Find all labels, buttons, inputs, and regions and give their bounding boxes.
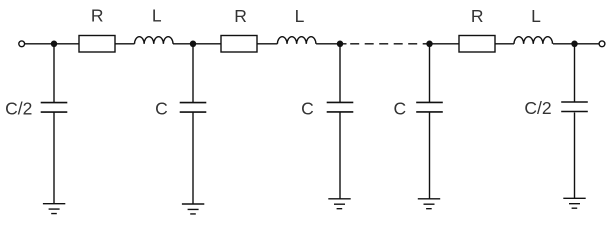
resistor R2: [221, 36, 257, 53]
inductor L2: [277, 37, 316, 44]
wire: capacitor C5 down to ground: [574, 113, 576, 199]
node 4 (junction dot): [426, 41, 433, 48]
svg-text:L: L: [295, 6, 305, 26]
svg-text:C/2: C/2: [5, 99, 32, 119]
wire: node 2 down to capacitor C2: [192, 44, 194, 102]
wire: left terminal to resistor R1, through node 1: [25, 43, 79, 45]
svg-text:R: R: [471, 6, 484, 26]
wire: capacitor C3 down to ground: [339, 113, 341, 199]
svg-text:C: C: [393, 98, 406, 118]
wire: capacitor C4 down to ground: [429, 113, 431, 199]
svg-text:C/2: C/2: [524, 98, 551, 118]
ground G4: [418, 199, 440, 209]
node 2 (junction dot): [190, 41, 197, 48]
ground G1: [43, 204, 65, 214]
wire: resistor R3 to inductor L3: [495, 43, 514, 45]
svg-text:C: C: [155, 99, 168, 119]
inductor L3: [514, 37, 553, 44]
wire: node 3 down to capacitor C3: [339, 44, 341, 102]
node 3 (junction dot): [337, 41, 344, 48]
wire: inductor L2 to node 3: [316, 43, 346, 45]
terminal T1 (left input, open circle): [19, 41, 25, 47]
capacitor C2 (C) plates: [180, 103, 207, 113]
ground G5: [563, 198, 585, 208]
svg-text:L: L: [531, 6, 541, 26]
resistor R3: [459, 36, 495, 53]
wire: node 4 down to capacitor C4: [429, 44, 431, 102]
wire: node 4 to resistor R3: [426, 43, 459, 45]
wire: capacitor C1 down to ground: [53, 113, 55, 204]
resistor R1: [79, 36, 115, 53]
wire: resistor R2 to inductor L2: [257, 43, 277, 45]
wire: capacitor C2 down to ground: [192, 113, 194, 205]
terminal T2 (right output, open circle): [599, 41, 605, 47]
node 5 (junction dot): [571, 41, 578, 48]
wire: inductor L3 to right terminal, through node 5: [553, 43, 599, 45]
wire: inductor L1 to resistor R2, through node 2: [173, 43, 221, 45]
node 1 (junction dot): [51, 41, 58, 48]
ground G3: [328, 199, 350, 209]
capacitor C5 (C/2) plates: [561, 102, 588, 112]
capacitor C1 (C/2) plates: [41, 103, 68, 113]
capacitor C4 (C) plates: [416, 102, 443, 112]
wire: resistor R1 to inductor L1: [115, 43, 135, 45]
svg-text:R: R: [234, 6, 247, 26]
wire: node 5 down to capacitor C5: [574, 44, 576, 102]
ground G2: [182, 204, 204, 214]
wire: dashed continuation between node 3 and node 4: [350, 43, 426, 45]
inductor L1: [135, 37, 174, 44]
svg-text:R: R: [91, 6, 104, 26]
svg-text:L: L: [152, 6, 162, 26]
wire: node 1 down to capacitor C1: [53, 44, 55, 102]
svg-text:C: C: [301, 98, 314, 118]
capacitor C3 (C) plates: [327, 102, 354, 112]
